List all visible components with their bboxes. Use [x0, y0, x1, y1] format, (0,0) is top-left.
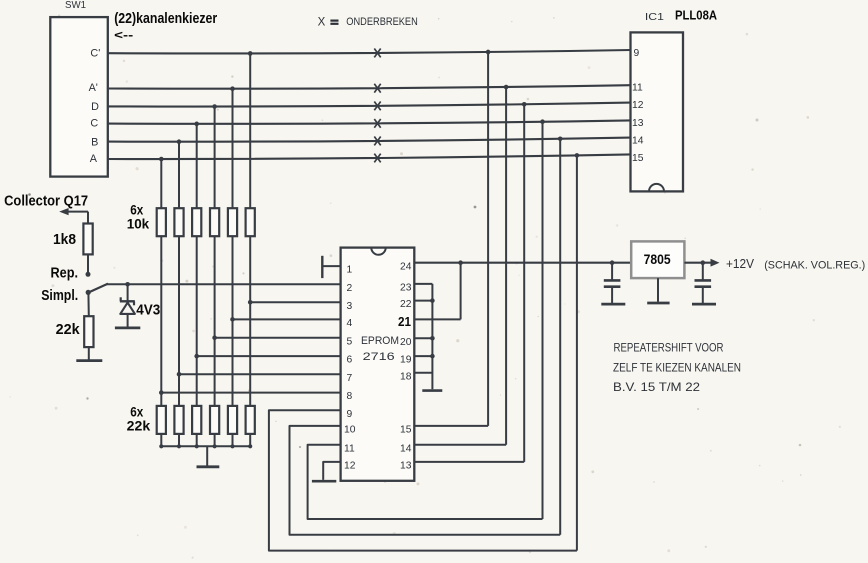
svg-text:4V3: 4V3	[136, 301, 160, 318]
svg-text:Simpl.: Simpl.	[41, 288, 78, 304]
svg-text:IC1: IC1	[645, 11, 664, 23]
svg-text:10: 10	[344, 425, 356, 436]
svg-text:ONDERBREKEN: ONDERBREKEN	[346, 16, 418, 28]
svg-text:2: 2	[347, 283, 353, 294]
svg-text:D: D	[91, 101, 99, 113]
svg-text:ZELF TE KIEZEN KANALEN: ZELF TE KIEZEN KANALEN	[613, 361, 741, 375]
svg-text:10k: 10k	[127, 216, 150, 232]
svg-text:14: 14	[632, 136, 644, 147]
svg-text:EPROM: EPROM	[361, 335, 399, 347]
svg-text:15: 15	[632, 153, 644, 164]
svg-text:18: 18	[400, 371, 412, 382]
svg-text:B: B	[91, 136, 98, 148]
svg-text:2716: 2716	[363, 351, 395, 363]
svg-text:(22)kanalenkiezer: (22)kanalenkiezer	[114, 10, 217, 27]
svg-text:13: 13	[400, 461, 412, 472]
svg-text:8: 8	[347, 391, 353, 402]
svg-text:9: 9	[634, 48, 640, 59]
svg-text:12: 12	[632, 100, 644, 111]
svg-text:7: 7	[347, 373, 353, 384]
svg-text:4: 4	[347, 318, 353, 329]
svg-text:21: 21	[398, 314, 411, 329]
svg-text:<--: <--	[114, 28, 133, 42]
svg-text:REPEATERSHIFT VOOR: REPEATERSHIFT VOOR	[614, 341, 724, 355]
svg-text:Rep.: Rep.	[51, 266, 79, 282]
svg-text:24: 24	[400, 261, 412, 272]
svg-text:22k: 22k	[127, 417, 151, 433]
svg-text:22k: 22k	[56, 321, 81, 338]
svg-text:1k8: 1k8	[53, 231, 76, 248]
svg-text:13: 13	[632, 118, 644, 129]
svg-text:+12V: +12V	[726, 256, 754, 271]
svg-text:23: 23	[400, 283, 412, 294]
svg-text:C': C'	[90, 48, 100, 60]
svg-text:12: 12	[344, 461, 356, 472]
svg-text:20: 20	[400, 337, 412, 348]
svg-text:(SCHAK. VOL.REG.): (SCHAK. VOL.REG.)	[764, 260, 865, 272]
svg-text:A': A'	[89, 82, 98, 94]
svg-text:11: 11	[344, 443, 355, 454]
svg-text:19: 19	[400, 355, 412, 366]
svg-text:1: 1	[347, 265, 353, 276]
svg-text:15: 15	[400, 425, 412, 436]
svg-text:SW1: SW1	[65, 0, 86, 11]
svg-text:22: 22	[400, 299, 412, 310]
svg-text:Collector Q17: Collector Q17	[4, 193, 88, 209]
svg-text:A: A	[90, 153, 98, 165]
svg-text:14: 14	[400, 443, 412, 454]
svg-text:PLL08A: PLL08A	[675, 8, 718, 23]
svg-text:3: 3	[347, 301, 353, 312]
svg-text:7805: 7805	[644, 251, 671, 267]
svg-text:9: 9	[347, 409, 353, 420]
svg-text:B.V. 15 T/M 22: B.V. 15 T/M 22	[613, 380, 700, 394]
svg-text:11: 11	[632, 83, 643, 94]
svg-text:X: X	[318, 16, 326, 28]
svg-text:5: 5	[347, 336, 353, 347]
svg-text:C: C	[90, 118, 98, 130]
svg-text:6: 6	[347, 355, 353, 366]
